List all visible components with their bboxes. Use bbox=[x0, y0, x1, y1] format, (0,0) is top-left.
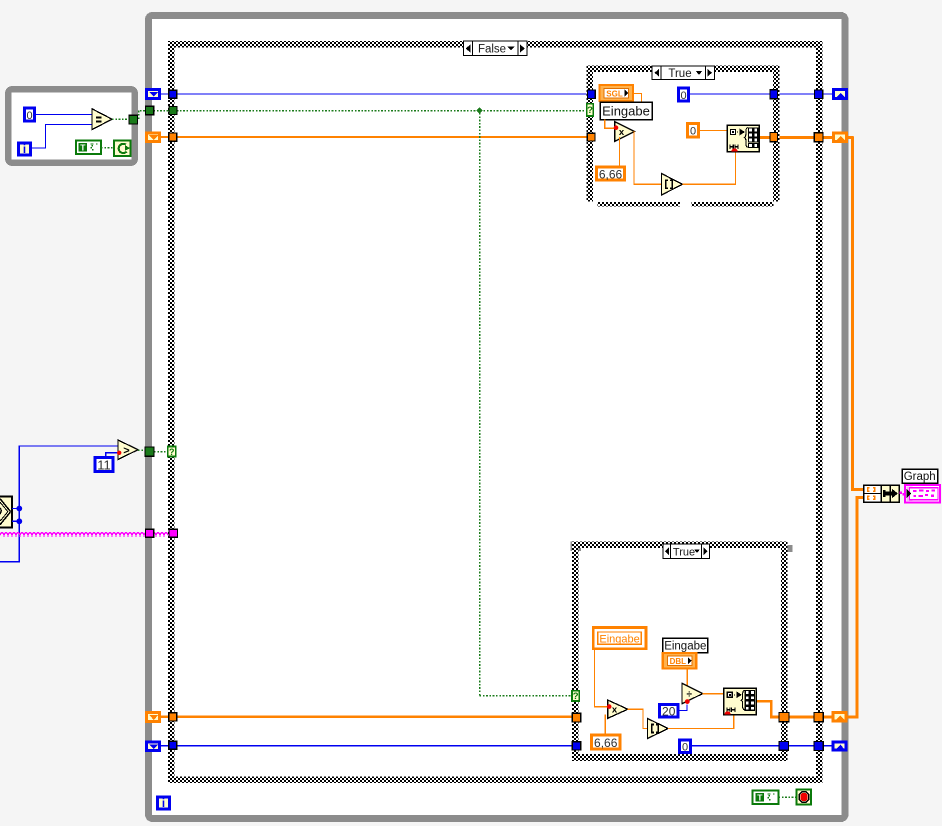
wire blue 0 to equal bbox=[36, 114, 93, 116]
wire orange top left bbox=[161, 136, 592, 138]
wire blue bottom right bbox=[692, 745, 833, 747]
numeric constant 0 orange (top) bbox=[688, 124, 699, 138]
tunnel orange on C2 right bbox=[770, 133, 778, 142]
wire orange array to build node bottom bbox=[846, 498, 865, 718]
svg-text:?: ? bbox=[169, 447, 175, 457]
wire blue top right bbox=[690, 93, 833, 95]
numeric constant 11 bbox=[95, 458, 113, 472]
numeric constant 0 (W1) bbox=[25, 108, 35, 121]
svg-text:x: x bbox=[612, 704, 618, 715]
case structure C1 right border bbox=[816, 41, 823, 783]
wire blue i to equal bbox=[32, 125, 92, 149]
case structure C1 left border bbox=[168, 41, 175, 783]
numeric constant 0 blue (top) bbox=[679, 88, 689, 101]
wire orange B1 to insert bbox=[683, 152, 736, 185]
local variable DBL (Eingabe) bbox=[663, 653, 697, 669]
tunnel orange on C1 left (bottom) bbox=[169, 713, 177, 721]
tunnel orange on C1 right (top) bbox=[814, 133, 823, 142]
wire orange bottom left bbox=[161, 716, 576, 718]
svg-text:0: 0 bbox=[26, 110, 32, 122]
tunnel blue on C2 right bbox=[770, 90, 778, 99]
selection handle C3 top-right bbox=[781, 545, 793, 552]
svg-text:?: ? bbox=[573, 691, 579, 702]
wire blue vertical trunk bbox=[0, 446, 118, 562]
wire orange SGL out bbox=[633, 94, 642, 103]
case structure C2 top border bbox=[587, 66, 780, 72]
svg-text:False: False bbox=[478, 44, 506, 56]
wire orange DBL to divide bbox=[686, 669, 688, 689]
wire junction diamond bbox=[476, 107, 482, 113]
case structure C2 right border bbox=[773, 66, 779, 202]
wire blue subVI out1 bbox=[12, 508, 19, 510]
loop condition continue terminal (W1) bbox=[114, 141, 131, 157]
svg-text:11: 11 bbox=[97, 458, 111, 473]
wire green dotted selector trunk bbox=[154, 110, 588, 112]
selection handle C3 top-left bbox=[571, 542, 582, 552]
wire green dotted tunnel to case selector bbox=[154, 451, 168, 453]
shift register right orange top bbox=[834, 133, 847, 142]
case C3 selector label True bbox=[663, 544, 710, 559]
tunnel green on W2 left border (middle) bbox=[145, 447, 154, 456]
case C1 selector terminal bbox=[168, 447, 176, 457]
svg-text:0: 0 bbox=[680, 90, 686, 102]
shift register left orange top bbox=[147, 133, 160, 142]
tunnel blue on C3 right bbox=[779, 741, 789, 750]
coercion dot D1 bbox=[685, 699, 690, 704]
wire orange control to multiply M2 bbox=[594, 649, 607, 707]
case structure C3 (bottom True) left border bbox=[572, 542, 578, 762]
shift register left blue top bbox=[147, 90, 160, 99]
numeric constant 6,66 (bottom) bbox=[592, 735, 621, 749]
svg-text:x: x bbox=[619, 127, 625, 138]
tunnel blue on C3 left bbox=[572, 742, 581, 750]
case structure C2 bottom border segment a bbox=[598, 202, 681, 207]
wire green dotted T to loop condition bbox=[101, 147, 114, 149]
numeric constant 0 blue (bottom) bbox=[680, 740, 691, 753]
coercion dot on greater bbox=[117, 451, 121, 455]
case structure C3 top border bbox=[572, 542, 788, 548]
iteration terminal i (W1) bbox=[19, 143, 31, 155]
wire green dotted to lower case selector bbox=[480, 695, 573, 697]
svg-text:0: 0 bbox=[682, 741, 688, 753]
shift register right blue top bbox=[834, 90, 847, 99]
wire orange M1 out to build array bbox=[634, 132, 662, 185]
interleave node (outside right) bbox=[881, 485, 899, 502]
svg-text:True: True bbox=[673, 547, 695, 559]
wire orange label to multiply bbox=[605, 120, 615, 129]
tunnel magenta on C1 left bbox=[169, 529, 177, 537]
svg-text:Graph: Graph bbox=[904, 471, 936, 483]
tunnel blue on C1 right (bottom) bbox=[814, 741, 823, 750]
indicator terminal Graph bbox=[905, 485, 940, 503]
wire orange 0 to insert bbox=[700, 129, 727, 131]
svg-text:DBL: DBL bbox=[670, 657, 687, 666]
tunnel magenta on W2 left border bbox=[145, 529, 153, 537]
svg-text:Eingabe: Eingabe bbox=[599, 633, 639, 645]
svg-text:Eingabe: Eingabe bbox=[602, 104, 650, 119]
svg-text:>: > bbox=[123, 445, 129, 457]
shift register left orange bottom bbox=[147, 713, 160, 722]
label Eingabe (bottom local) bbox=[663, 638, 708, 653]
label Eingabe (top local) bbox=[600, 102, 652, 120]
junction dot 1 bbox=[16, 506, 22, 512]
tunnel blue on C1 left (top) bbox=[169, 90, 177, 98]
equal? node (W1) bbox=[92, 109, 112, 130]
wire blue subVI out2 bbox=[12, 520, 19, 522]
control terminal Eingabe (orange) bbox=[593, 628, 646, 649]
svg-text:6,66: 6,66 bbox=[599, 167, 623, 181]
tunnel orange on C1 right (bottom) bbox=[814, 712, 823, 721]
tunnel blue on C1 left (bottom) bbox=[169, 741, 177, 749]
multiply node M2 bbox=[608, 700, 628, 718]
svg-text:True: True bbox=[668, 68, 691, 80]
label Graph bbox=[902, 469, 938, 483]
wire orange D1 to insert A2 bbox=[703, 693, 724, 695]
divide node D1 bbox=[682, 683, 703, 703]
wire orange array to build node top bbox=[853, 136, 866, 489]
wire orange array bottom right bbox=[756, 701, 847, 717]
boolean terminal TF (W2 bottom) bbox=[753, 791, 779, 805]
wire blue 11 to greater bbox=[106, 453, 118, 456]
tunnel green on C1 left bbox=[169, 106, 177, 114]
case structure C1 bottom border bbox=[168, 777, 823, 784]
wire orange B2 to insert A2 bbox=[668, 715, 734, 729]
iteration terminal i (W2) bbox=[158, 797, 170, 809]
svg-text:20: 20 bbox=[662, 705, 676, 719]
svg-text:T: T bbox=[80, 143, 86, 153]
case structure C2 (top True) left border bbox=[587, 66, 593, 202]
build array node B2 bbox=[647, 718, 668, 738]
wire green dotted vertical branch bbox=[479, 113, 481, 696]
tunnel orange on C2 left bbox=[587, 133, 595, 141]
case C2 selector label True bbox=[652, 66, 715, 80]
coercion half dot A2 bbox=[725, 711, 731, 714]
selection handle C3 top-middle bbox=[678, 542, 691, 548]
wire green dotted equal to tunnel bbox=[112, 118, 129, 120]
tunnel green on W1 right border bbox=[129, 115, 138, 124]
numeric constant 6,66 (top) bbox=[597, 167, 625, 180]
case C1 selector label False bbox=[464, 41, 528, 56]
wire blue bottom left bbox=[161, 745, 576, 747]
svg-text:÷: ÷ bbox=[687, 690, 693, 701]
build array node (outside right) bbox=[864, 485, 881, 502]
wire orange array top right bbox=[759, 136, 847, 139]
shift register right blue bottom bbox=[833, 742, 846, 750]
small while loop W1 interior bbox=[5, 86, 138, 166]
coercion dot M1 bbox=[614, 125, 619, 130]
svg-text:T: T bbox=[757, 793, 763, 803]
svg-text:SGL: SGL bbox=[606, 89, 623, 98]
junction dot 2 bbox=[16, 518, 22, 524]
svg-text:i: i bbox=[23, 144, 26, 156]
wire orange 6,66 to M1 bbox=[618, 137, 620, 166]
wire green dotted greater to W2 tunnel bbox=[138, 449, 145, 451]
case structure C3 right border bbox=[781, 542, 787, 762]
tunnel orange on C3 left bbox=[572, 713, 581, 722]
shift register right orange bottom bbox=[833, 712, 846, 721]
svg-text:i: i bbox=[162, 798, 165, 810]
tunnel orange on C3 right bbox=[779, 712, 789, 721]
small while loop W1 border bbox=[8, 89, 135, 163]
svg-text:Eingabe: Eingabe bbox=[664, 640, 706, 652]
coercion half dot A1 bbox=[732, 148, 738, 151]
tunnel blue on C2 left bbox=[588, 90, 596, 98]
coercion dot M2 bbox=[607, 704, 612, 709]
greater? node bbox=[118, 440, 138, 460]
local variable SGL (Eingabe) bbox=[600, 85, 634, 101]
case structure C3 bottom border bbox=[572, 754, 788, 761]
svg-text:?: ? bbox=[587, 105, 593, 116]
case C2 selector terminal bbox=[587, 104, 594, 116]
insert into array node A2 bbox=[724, 688, 756, 715]
wire blue 20 to divide bbox=[680, 705, 688, 711]
wire magenta string coil bbox=[0, 533, 168, 536]
while loop W2 (main) interior bbox=[145, 12, 849, 822]
insert into array node A1 bbox=[727, 125, 759, 151]
wire green dotted W1 tunnel to W2 tunnel bbox=[139, 111, 147, 120]
shift register left blue bottom bbox=[147, 742, 160, 750]
numeric constant 20 bbox=[660, 704, 679, 717]
case structure C1 top border bbox=[168, 41, 823, 48]
svg-text:6,66: 6,66 bbox=[594, 736, 618, 750]
boolean constant T (W1) bbox=[76, 141, 101, 155]
case structure C2 bottom border segment b bbox=[692, 202, 774, 207]
wire orange M2 out to build array B2 bbox=[627, 709, 647, 728]
multiply node M1 bbox=[615, 122, 635, 142]
wire orange 6,66 to M2 bbox=[604, 715, 606, 734]
subVI icon (left edge, clipped) bbox=[0, 497, 12, 528]
case C3 selector terminal bbox=[572, 691, 579, 701]
wire magenta link to graph bbox=[900, 491, 903, 494]
tunnel orange on C1 left (top) bbox=[169, 133, 177, 141]
build array node B1 bbox=[661, 174, 682, 196]
tunnel green on W2 left border (top) bbox=[146, 106, 154, 114]
while loop W2 border bbox=[149, 16, 846, 819]
stop button terminal bbox=[797, 790, 812, 805]
tunnel blue on C1 right (top) bbox=[815, 90, 823, 99]
wire blue top left bbox=[161, 93, 592, 95]
wire green dotted TF to stop bbox=[779, 796, 797, 798]
svg-text:0: 0 bbox=[690, 126, 696, 138]
